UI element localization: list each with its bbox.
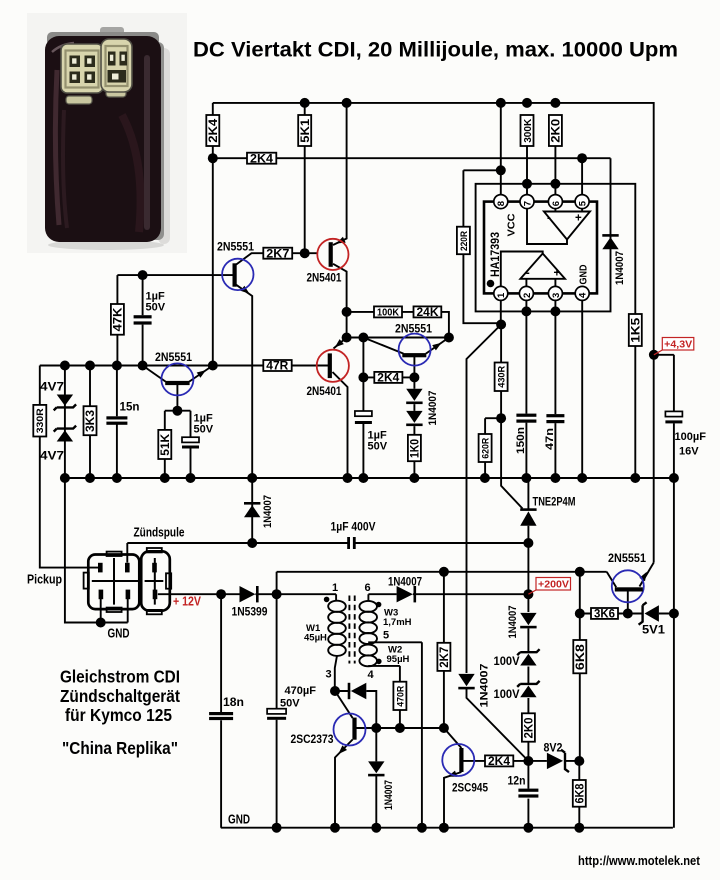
svg-text:24K: 24K [417,307,440,319]
svg-text:7: 7 [522,201,533,206]
svg-text:2N5551: 2N5551 [395,322,432,336]
svg-text:4V7: 4V7 [40,380,64,394]
svg-text:VCC: VCC [507,214,518,237]
svg-text:8: 8 [496,201,507,206]
svg-text:12n: 12n [508,776,526,788]
svg-text:51K: 51K [160,433,172,456]
svg-text:2K0: 2K0 [524,718,536,739]
svg-text:2K0: 2K0 [551,119,563,143]
svg-text:50V: 50V [368,441,388,453]
svg-text:+4,3V: +4,3V [664,339,692,351]
svg-text:1µF 400V: 1µF 400V [331,522,376,534]
svg-text:-: - [526,266,530,280]
svg-text:2N5551: 2N5551 [217,240,254,254]
svg-text:47K: 47K [113,307,125,332]
svg-text:Zündschaltgerät: Zündschaltgerät [60,686,180,706]
svg-text:TNE2P4M: TNE2P4M [533,497,576,509]
svg-text:5: 5 [383,630,389,642]
svg-text:für Kymco 125: für Kymco 125 [65,705,172,725]
svg-text:"China Replika": "China Replika" [62,738,178,758]
svg-text:2K4: 2K4 [208,118,220,143]
svg-text:3: 3 [551,293,562,298]
svg-text:-: - [547,211,551,225]
svg-text:470R: 470R [395,686,406,707]
svg-text:+: + [554,268,561,280]
svg-text:1N4007: 1N4007 [427,391,439,426]
svg-text:47n: 47n [544,428,556,450]
svg-text:2K4: 2K4 [488,756,511,768]
svg-text:100V: 100V [494,687,520,701]
svg-text:5: 5 [578,200,589,206]
svg-text:1K5: 1K5 [630,317,642,343]
svg-text:DC Viertakt CDI, 20 Millijoule: DC Viertakt CDI, 20 Millijoule, max. 100… [193,39,678,62]
svg-text:6K8: 6K8 [575,643,587,670]
svg-text:2: 2 [522,293,533,298]
svg-text:2SC2373: 2SC2373 [291,734,334,746]
svg-text:3: 3 [326,669,332,681]
svg-text:620R: 620R [481,438,492,459]
svg-text:2K7: 2K7 [266,248,289,260]
svg-text:4V7: 4V7 [40,449,64,463]
svg-text:Pickup: Pickup [27,573,62,587]
svg-text:8V2: 8V2 [544,741,563,755]
svg-text:6: 6 [365,582,371,594]
svg-text:100µF: 100µF [675,431,707,443]
svg-text:1N4007: 1N4007 [262,495,274,528]
svg-text:HA17393: HA17393 [488,232,502,277]
svg-text:+: + [575,213,582,225]
svg-text:2K7: 2K7 [439,647,451,668]
svg-text:2K4: 2K4 [250,153,274,165]
svg-text:+200V: +200V [538,579,569,591]
svg-text:470µF: 470µF [285,685,317,697]
svg-text:1N4007: 1N4007 [614,251,626,285]
svg-text:Zündspule: Zündspule [134,526,185,540]
svg-text:2K4: 2K4 [377,373,400,385]
svg-text:2N5401: 2N5401 [307,271,342,285]
svg-text:+ 12V: + 12V [173,595,202,609]
svg-text:50V: 50V [280,698,300,710]
svg-text:430R: 430R [497,366,508,388]
svg-text:3K3: 3K3 [85,410,97,432]
svg-text:4: 4 [368,669,375,681]
svg-text:95µH: 95µH [387,654,410,665]
svg-text:4: 4 [578,292,589,298]
svg-text:1: 1 [332,582,338,594]
svg-text:1N4007: 1N4007 [388,575,422,589]
svg-text:18n: 18n [223,697,244,709]
svg-text:15n: 15n [120,402,140,414]
svg-text:3K6: 3K6 [594,609,615,621]
svg-text:Gleichstrom CDI: Gleichstrom CDI [60,667,180,687]
svg-text:100K: 100K [377,307,399,319]
svg-text:2N5551: 2N5551 [155,350,192,364]
svg-text:GND: GND [578,264,590,284]
svg-text:45µH: 45µH [304,633,327,644]
svg-text:1N5399: 1N5399 [232,605,268,619]
svg-text:50V: 50V [146,302,166,314]
svg-text:http://www.motelek.net: http://www.motelek.net [578,854,701,868]
svg-text:5V1: 5V1 [642,623,665,637]
svg-text:330R: 330R [35,408,46,433]
svg-text:1N4007: 1N4007 [507,606,519,639]
svg-text:16V: 16V [679,446,699,458]
svg-text:GND: GND [228,813,250,827]
svg-text:1K0: 1K0 [410,439,422,458]
svg-text:1: 1 [496,292,507,298]
svg-text:1N4007: 1N4007 [383,780,395,810]
svg-text:GND: GND [108,627,130,641]
svg-text:47R: 47R [266,361,289,373]
svg-text:300K: 300K [522,118,534,142]
svg-text:6K8: 6K8 [574,783,586,804]
svg-text:150n: 150n [515,427,527,454]
svg-text:2SC945: 2SC945 [452,783,489,795]
svg-text:220R: 220R [459,231,470,251]
svg-text:2N5401: 2N5401 [307,384,342,398]
svg-text:100V: 100V [494,654,520,668]
svg-text:5K1: 5K1 [300,118,312,143]
svg-text:2N5551: 2N5551 [608,551,646,565]
svg-text:50V: 50V [194,424,214,436]
svg-text:1,7mH: 1,7mH [383,617,412,628]
svg-text:1N4007: 1N4007 [479,664,491,708]
svg-text:6: 6 [551,201,562,206]
